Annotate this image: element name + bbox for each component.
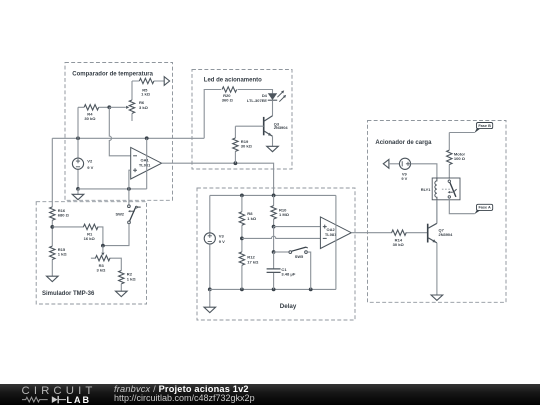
svg-text:9 V: 9 V xyxy=(401,176,407,181)
svg-text:3 kΩ: 3 kΩ xyxy=(96,267,106,272)
svg-text:360 Ω: 360 Ω xyxy=(222,97,234,102)
svg-text:1 kΩ: 1 kΩ xyxy=(247,216,257,221)
svg-text:30 kΩ: 30 kΩ xyxy=(241,144,253,149)
svg-text:Fase B: Fase B xyxy=(478,124,491,128)
svg-text:SW2: SW2 xyxy=(115,212,124,217)
svg-text:Fase A: Fase A xyxy=(478,206,491,210)
svg-text:1 kΩ: 1 kΩ xyxy=(141,92,151,97)
svg-text:Simulador TMP-36: Simulador TMP-36 xyxy=(42,291,95,297)
svg-text:1 kΩ: 1 kΩ xyxy=(127,276,137,281)
svg-text:2N3904: 2N3904 xyxy=(439,232,454,237)
svg-text:30 kΩ: 30 kΩ xyxy=(393,242,405,247)
svg-text:Acionador de carga: Acionador de carga xyxy=(375,140,432,146)
svg-text:9 V: 9 V xyxy=(87,165,93,170)
svg-text:100 Ω: 100 Ω xyxy=(454,156,466,161)
svg-text:Led de acionamento: Led de acionamento xyxy=(204,77,262,83)
svg-text:TL081: TL081 xyxy=(325,232,337,237)
svg-text:680 Ω: 680 Ω xyxy=(58,213,70,218)
svg-text:LTL-307EE: LTL-307EE xyxy=(247,98,267,103)
svg-text:16 kΩ: 16 kΩ xyxy=(84,236,96,241)
svg-text:Comparador de temperatura: Comparador de temperatura xyxy=(72,71,153,77)
svg-text:RLY1: RLY1 xyxy=(421,187,432,192)
svg-text:1 MΩ: 1 MΩ xyxy=(279,212,290,217)
svg-text:17 kΩ: 17 kΩ xyxy=(247,259,259,264)
svg-text:1 kΩ: 1 kΩ xyxy=(58,251,68,256)
svg-text:30 kΩ: 30 kΩ xyxy=(84,116,96,121)
svg-text:3.48 μF: 3.48 μF xyxy=(281,272,295,277)
svg-text:Delay: Delay xyxy=(280,303,297,310)
svg-text:TL081: TL081 xyxy=(139,162,151,167)
svg-text:2N3904: 2N3904 xyxy=(274,125,289,130)
svg-text:3 kΩ: 3 kΩ xyxy=(139,105,149,110)
svg-text:SW5: SW5 xyxy=(295,254,304,259)
svg-text:9 V: 9 V xyxy=(219,239,225,244)
svg-text:V2: V2 xyxy=(87,158,93,163)
